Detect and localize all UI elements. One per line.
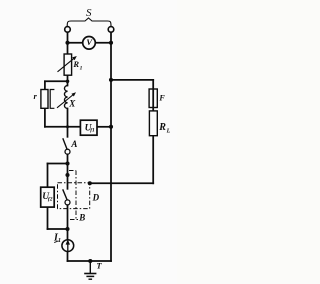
wire: below contact A to contact B <box>67 154 69 189</box>
wire: r box bottom down <box>44 108 46 127</box>
svg-text:D: D <box>92 193 100 203</box>
wire: coil bottom down to contact A <box>67 109 69 137</box>
svg-text:1: 1 <box>80 65 83 71</box>
junction dot below R1 <box>66 80 70 84</box>
terminal circle left of S <box>65 27 71 33</box>
current source I1 <box>53 232 74 251</box>
wire: RL bottom down to output horizontal <box>152 136 154 184</box>
wire: voltmeter horizontal <box>68 42 112 44</box>
wire: Uf2 branch bottom horizontal <box>48 228 68 230</box>
dash-dot enclosure D <box>58 171 90 220</box>
svg-text:f1: f1 <box>90 128 95 134</box>
svg-text:T: T <box>96 261 102 271</box>
svg-text:X: X <box>68 99 76 109</box>
svg-text:A: A <box>70 139 77 149</box>
wire: right main vertical (S right terminal down to bottom rail) <box>110 32 112 261</box>
wire: Uf2 branch left down <box>47 164 49 188</box>
svg-text:B: B <box>78 213 85 223</box>
wire: below contact B down to I1 <box>67 205 69 240</box>
wire: top right horizontal to F branch <box>111 79 153 81</box>
junction dot above B <box>65 173 69 177</box>
wire: bottom rail <box>68 260 112 262</box>
voltmeter V <box>83 37 96 50</box>
junction dot left voltmeter <box>65 41 69 45</box>
resistor r <box>34 90 55 109</box>
wire: I1 bottom to rail <box>67 251 69 261</box>
switch S bracket <box>67 18 111 26</box>
wire: r branch top horizontal <box>45 80 68 82</box>
junction dot top of F branch <box>109 78 113 82</box>
block Uf1 <box>80 120 97 135</box>
junction dot Uf1 right <box>109 125 113 129</box>
ground T <box>84 261 96 279</box>
junction dot right voltmeter <box>109 41 113 45</box>
fuse F <box>149 89 165 108</box>
svg-text:S: S <box>86 7 92 19</box>
terminal circle right of S <box>108 27 114 33</box>
resistor RL <box>149 111 170 136</box>
block Uf2 <box>41 187 55 207</box>
wire: left main vertical upper (S left terminal to R1) <box>67 32 69 54</box>
svg-text:R: R <box>72 59 79 69</box>
wire: F branch vertical down through fuse <box>152 80 154 111</box>
wire: Uf1 right horizontal <box>97 126 111 128</box>
junction dot output wire <box>88 181 92 185</box>
junction small cross dot at r return / Uf1 line <box>66 125 69 128</box>
wire: output horizontal to load branch <box>90 182 153 184</box>
contact B <box>63 189 70 205</box>
wire: r branch left down to r box <box>44 81 46 89</box>
wire: Uf2 branch horizontal top <box>48 163 68 165</box>
variable inductor X (coil) <box>57 86 76 109</box>
junction dot ground <box>88 259 92 263</box>
svg-text:f2: f2 <box>48 196 53 202</box>
junction dot below A <box>65 161 69 165</box>
resistor R1 (adjustable) <box>58 54 83 75</box>
wire: R1 bottom to coil top <box>67 75 69 85</box>
junction dot Uf2 bottom <box>65 227 69 231</box>
wire: bottom of r branch / Uf1 left horizontal <box>45 126 81 128</box>
svg-text:F: F <box>158 93 165 102</box>
wire: Uf2 box bottom down <box>47 207 49 229</box>
svg-text:L: L <box>166 128 171 134</box>
svg-text:R: R <box>158 122 166 133</box>
contact A <box>63 138 78 154</box>
